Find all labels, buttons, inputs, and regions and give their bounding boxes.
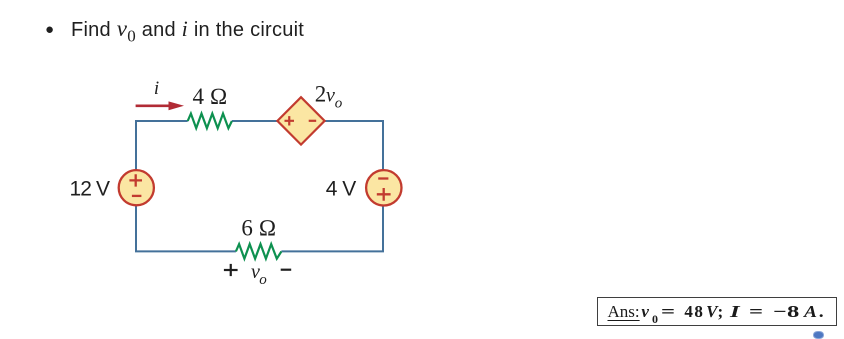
wire: bottom-left horizontal and left-lower vertical <box>136 205 236 251</box>
resistor 4ohm (top zigzag) <box>188 114 232 129</box>
resistor 6ohm (bottom zigzag) <box>236 244 282 259</box>
svg-text:4 Ω: 4 Ω <box>193 84 228 109</box>
svg-text:4 V: 4 V <box>326 177 357 200</box>
label + vo - (bottom polarity) <box>224 261 291 288</box>
svg-text:v: v <box>326 85 335 107</box>
svg-text:6 Ω: 6 Ω <box>241 216 276 241</box>
wire: right-lower vertical and bottom-right horizontal <box>281 205 383 251</box>
title text: Find vo and i in the circuit <box>71 19 304 42</box>
dependent source 2vo (diamond) <box>277 97 324 144</box>
decorative blue mark bottom right <box>813 331 824 339</box>
voltage source 4V (right circle) <box>366 170 401 205</box>
svg-text:o: o <box>335 96 343 112</box>
title bullet <box>45 21 54 38</box>
wire: top-right horizontal and right-upper vertical <box>324 121 383 171</box>
svg-text:12 V: 12 V <box>70 177 110 200</box>
wire: top middle between 4ohm resistor and dependent source <box>232 120 278 122</box>
current arrow i <box>136 101 184 110</box>
wire: left-upper vertical and top-left horizontal <box>136 121 188 171</box>
svg-text:2: 2 <box>315 82 327 107</box>
label 2vo <box>315 82 343 112</box>
voltage source 12V (left circle) <box>119 170 154 205</box>
answer box <box>597 297 838 327</box>
svg-text:i: i <box>154 78 159 99</box>
svg-text:o: o <box>259 272 267 288</box>
